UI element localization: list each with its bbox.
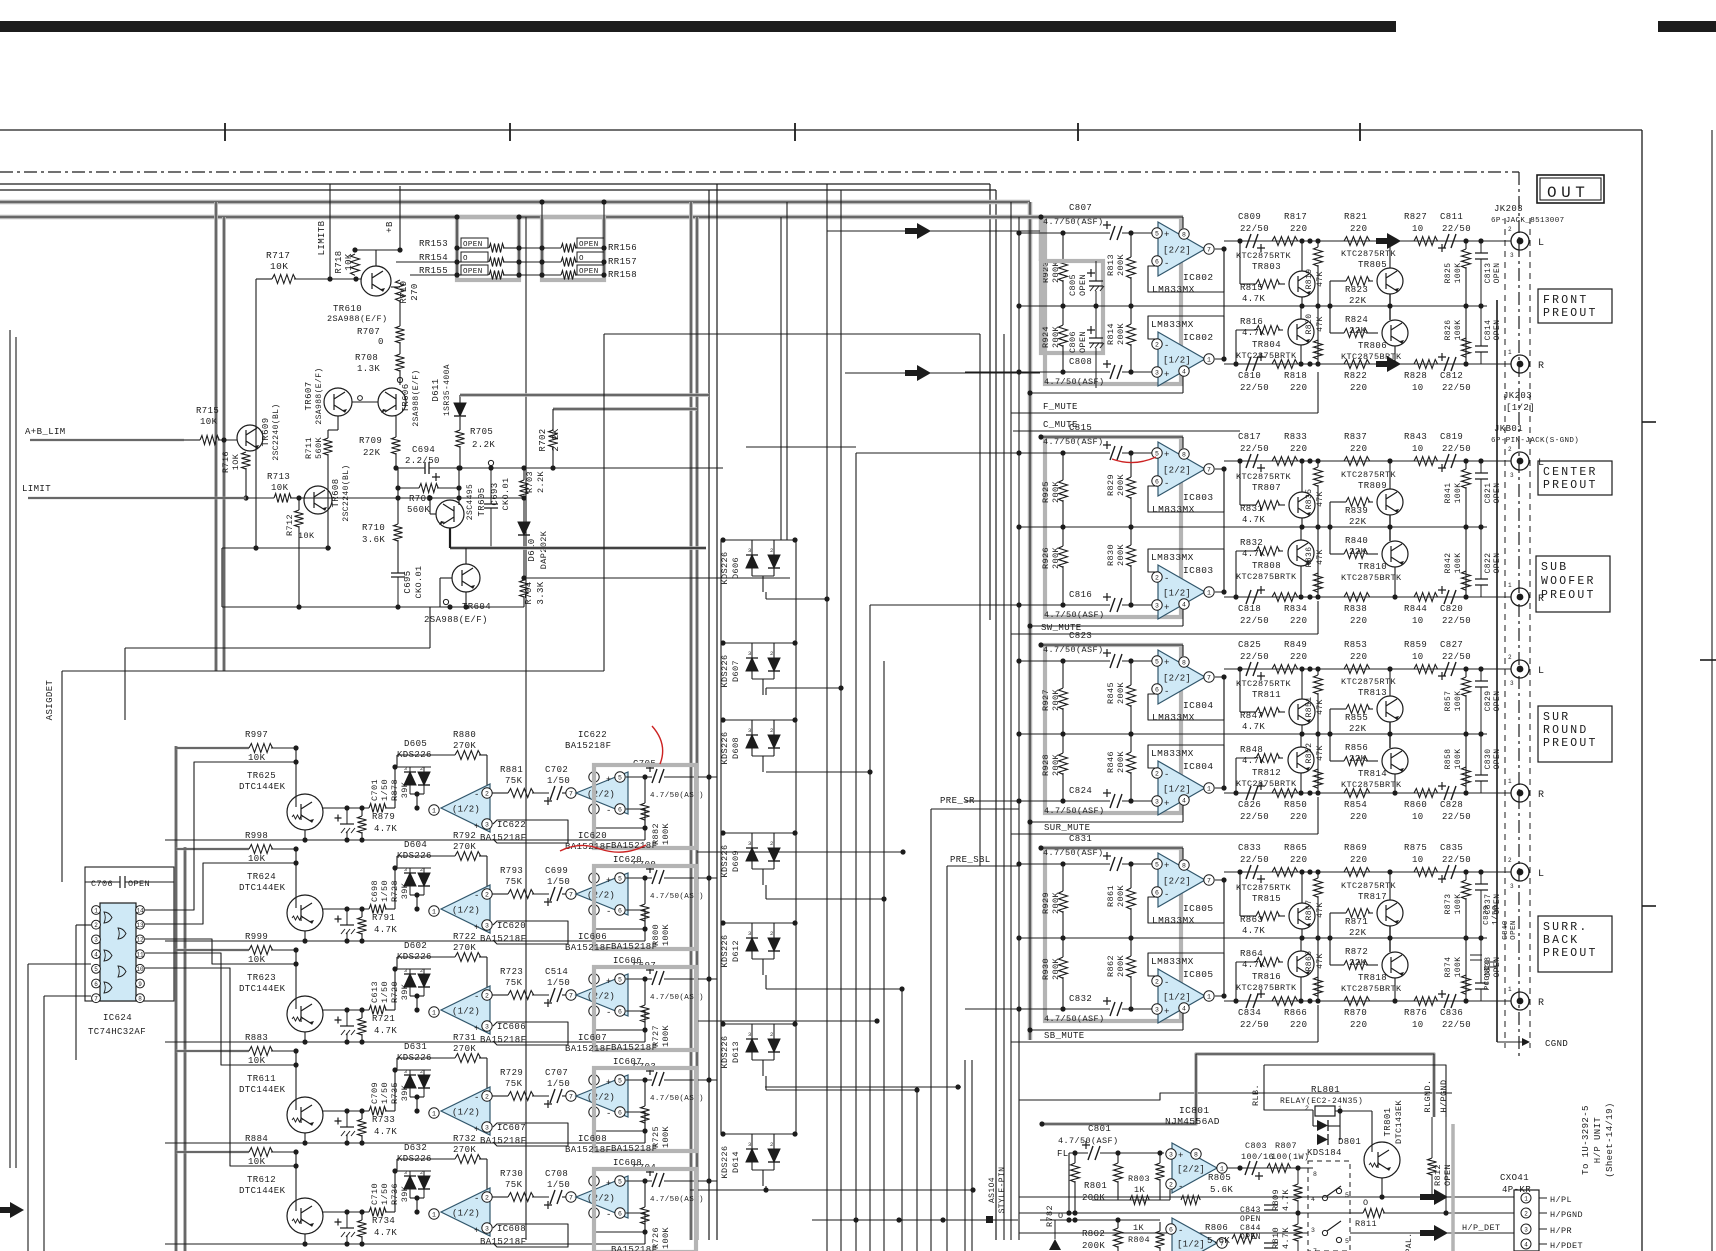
- svg-text:5: 5: [618, 875, 622, 882]
- svg-text:4.7K: 4.7K: [374, 1127, 397, 1137]
- svg-text:220: 220: [1350, 652, 1367, 662]
- gray box IC608: [594, 1169, 696, 1251]
- wire horizontal y1087: [765, 1086, 961, 1088]
- svg-text:7: 7: [1207, 466, 1211, 473]
- svg-text:4: 4: [1182, 797, 1186, 804]
- svg-text:2: 2: [420, 1069, 423, 1075]
- svg-text:220: 220: [1350, 1020, 1367, 1030]
- svg-text:TR611: TR611: [247, 1074, 276, 1084]
- svg-text:BA15218F: BA15218F: [565, 943, 611, 953]
- svg-text:TR605: TR605: [477, 487, 487, 516]
- svg-text:1/50: 1/50: [380, 1082, 390, 1104]
- svg-text:IC802: IC802: [1183, 272, 1214, 283]
- wire 2/2 feedback IC608: [594, 1213, 645, 1232]
- svg-text:10K: 10K: [298, 531, 315, 541]
- wire PCGND vertical: [1496, 300, 1498, 1042]
- svg-text:12: 12: [136, 937, 144, 944]
- svg-text:200K: 200K: [1116, 254, 1126, 277]
- svg-text:R807: R807: [1275, 1141, 1297, 1151]
- svg-text:270K: 270K: [453, 842, 476, 852]
- svg-text:TR810: TR810: [1358, 562, 1387, 572]
- svg-text:O: O: [579, 255, 584, 263]
- svg-text:(2/2): (2/2): [587, 1194, 615, 1204]
- svg-text:BA15218F: BA15218F: [480, 1136, 526, 1146]
- svg-text:270: 270: [410, 283, 420, 300]
- transistor TR624: [287, 895, 323, 931]
- capacitor C830 OPEN vertical: [1475, 775, 1488, 781]
- svg-text:O: O: [1363, 1198, 1369, 1208]
- wire row emitter TR625: [322, 807, 369, 809]
- gray box R923 C805: [1041, 261, 1103, 353]
- svg-text:AS1O4: AS1O4: [988, 1177, 997, 1203]
- svg-text:D607: D607: [731, 660, 741, 682]
- resistor R858 100K vertical: [1462, 767, 1471, 786]
- svg-text:22/50: 22/50: [1240, 616, 1269, 626]
- svg-text:6: 6: [618, 907, 622, 914]
- wire IC607 label box: [493, 1123, 568, 1146]
- label box SUR ROUND PREOUT: [1538, 706, 1612, 762]
- wire vertical gray pair x691: [689, 202, 693, 1240]
- op-amp IC608 (1/2): [429, 1209, 439, 1219]
- svg-text:LM833MX: LM833MX: [1151, 748, 1194, 759]
- svg-text:SUB: SUB: [1541, 561, 1568, 574]
- wire vertical x1019: [1018, 217, 1020, 1240]
- svg-text:R820: R820: [1305, 314, 1314, 335]
- svg-text:2SA988(E/F): 2SA988(E/F): [424, 615, 488, 625]
- wire IC802 chain2: [1224, 363, 1511, 365]
- svg-text:8: 8: [1182, 862, 1186, 869]
- svg-text:3: 3: [748, 547, 752, 554]
- svg-text:C613: C613: [370, 981, 380, 1003]
- svg-text:4.7K: 4.7K: [1281, 1189, 1291, 1212]
- wire IC803 chain2: [1224, 596, 1511, 598]
- svg-text:C834: C834: [1238, 1008, 1261, 1018]
- wire IC804 upper rail: [1041, 644, 1183, 646]
- wire row bottom TR612: [165, 1243, 645, 1245]
- svg-text:TR818: TR818: [1358, 973, 1387, 983]
- svg-text:IC606: IC606: [578, 932, 607, 942]
- svg-text:10K: 10K: [200, 417, 218, 427]
- svg-text:R826: R826: [1444, 320, 1453, 341]
- svg-text:LIMIT: LIMIT: [22, 484, 51, 494]
- svg-text:SUR: SUR: [1543, 711, 1570, 724]
- svg-text:LM833MX: LM833MX: [1152, 712, 1195, 723]
- svg-text:RLB.: RLB.: [1251, 1084, 1261, 1106]
- svg-text:C820: C820: [1440, 604, 1463, 614]
- capacitor C822 OPEN vertical: [1475, 579, 1488, 585]
- svg-text:10K: 10K: [270, 261, 288, 272]
- svg-text:R998: R998: [245, 831, 268, 841]
- svg-text:TR606: TR606: [401, 383, 411, 412]
- svg-text:JKB01: JKB01: [1494, 424, 1523, 434]
- resistor R791: [369, 905, 386, 914]
- jack R IC802: [1511, 355, 1529, 373]
- wire RLB net: [1264, 1065, 1313, 1110]
- svg-text:6: 6: [1155, 258, 1159, 265]
- svg-text:1: 1: [1207, 993, 1211, 1000]
- svg-text:4.7/50(ASF): 4.7/50(ASF): [1043, 437, 1104, 447]
- wires IC624 staircase to rows: [145, 762, 296, 910]
- gray highlight loop IC805: [1045, 848, 1181, 1021]
- svg-text:C694: C694: [412, 445, 435, 455]
- wire TR817 stack: [1389, 872, 1391, 900]
- svg-text:-: -: [1164, 574, 1170, 584]
- svg-text:C836: C836: [1440, 1008, 1463, 1018]
- red annotation marks: [652, 726, 663, 764]
- svg-text:LM833MX: LM833MX: [1152, 504, 1195, 515]
- svg-text:C707: C707: [545, 1068, 568, 1078]
- svg-text:1/50: 1/50: [380, 981, 390, 1003]
- svg-text:4.7K: 4.7K: [374, 1026, 397, 1036]
- svg-text:3.6K: 3.6K: [362, 535, 385, 545]
- svg-text:3: 3: [485, 1124, 489, 1131]
- svg-text:[1/2]: [1/2]: [1163, 993, 1191, 1003]
- svg-text:IC606: IC606: [613, 956, 642, 966]
- svg-text:NJM4556AD: NJM4556AD: [1165, 1116, 1220, 1127]
- capacitor C709: [340, 1126, 354, 1128]
- capacitor C613: [340, 1025, 354, 1027]
- svg-text:OPEN: OPEN: [1493, 263, 1502, 284]
- svg-text:220: 220: [1290, 812, 1307, 822]
- svg-text:2: 2: [1508, 446, 1512, 453]
- svg-text:3: 3: [1524, 1226, 1528, 1233]
- resistor R733: [369, 1107, 386, 1116]
- svg-text:KTC2875RTK: KTC2875RTK: [1236, 251, 1292, 261]
- resistor R878: [358, 816, 367, 833]
- svg-text:1: 1: [1220, 1165, 1224, 1172]
- svg-text:BA15218F: BA15218F: [611, 1245, 657, 1251]
- svg-text:3: 3: [1155, 369, 1159, 376]
- svg-text:IC620: IC620: [613, 855, 642, 865]
- svg-text:2SC2240(BL): 2SC2240(BL): [342, 464, 351, 521]
- IC U624 TC74HC32AF: [100, 903, 136, 1001]
- svg-text:C809: C809: [1238, 212, 1261, 222]
- svg-text:R857: R857: [1444, 691, 1453, 712]
- op-amp IC606 (2/2): [566, 990, 576, 1000]
- svg-text:R823: R823: [1345, 285, 1368, 295]
- wire IC804 mid to 1487: [1434, 733, 1487, 735]
- wire HPGND net: [1264, 1065, 1446, 1117]
- svg-text:R848: R848: [1240, 745, 1263, 755]
- svg-text:KTC2875RTK: KTC2875RTK: [1341, 470, 1397, 480]
- svg-text:10K: 10K: [271, 483, 289, 493]
- wire row emitter TR623: [322, 1009, 369, 1011]
- svg-text:100K: 100K: [1454, 894, 1463, 915]
- svg-text:4.7/50(ASF): 4.7/50(ASF): [1044, 610, 1105, 620]
- dashed switch box: [1308, 1161, 1350, 1251]
- wire KDS output stubs: [765, 592, 767, 599]
- wire IC805 output bus vertical: [1223, 880, 1225, 996]
- svg-text:47K: 47K: [1316, 271, 1325, 287]
- svg-text:R926: R926: [1041, 547, 1051, 569]
- svg-text:D611: D611: [431, 378, 441, 401]
- svg-text:IC608: IC608: [613, 1158, 642, 1168]
- svg-text:IC805: IC805: [1183, 903, 1214, 914]
- wire x398 column: [397, 468, 399, 524]
- svg-text:(1/2): (1/2): [452, 906, 480, 916]
- wire IC803 amp1 feedback box: [1148, 469, 1224, 512]
- svg-text:R782: R782: [1045, 1205, 1055, 1227]
- svg-text:[1/2]: [1/2]: [1163, 356, 1191, 366]
- svg-text:6: 6: [1155, 889, 1159, 896]
- svg-text:C701: C701: [370, 779, 380, 801]
- svg-text:D631: D631: [404, 1042, 427, 1052]
- svg-text:IC624: IC624: [103, 1013, 132, 1023]
- svg-text:C812: C812: [1440, 371, 1463, 381]
- svg-text:C695: C695: [403, 570, 413, 593]
- svg-text:R791: R791: [372, 913, 395, 923]
- svg-text:OPEN: OPEN: [1240, 1233, 1261, 1242]
- svg-text:PCGND: PCGND: [1484, 966, 1492, 991]
- svg-text:4: 4: [94, 951, 98, 958]
- svg-text:1: 1: [432, 908, 436, 915]
- svg-text:IC608: IC608: [578, 1134, 607, 1144]
- svg-text:4: 4: [1524, 1241, 1528, 1248]
- svg-text:3.3K: 3.3K: [536, 581, 546, 604]
- svg-text:R: R: [1538, 790, 1544, 801]
- svg-text:2: 2: [1155, 978, 1159, 985]
- svg-text:+: +: [474, 1226, 480, 1236]
- svg-text:IC803: IC803: [1183, 565, 1214, 576]
- svg-text:R818: R818: [1284, 371, 1307, 381]
- svg-text:R813: R813: [1106, 254, 1116, 276]
- svg-text:IC803: IC803: [1183, 492, 1214, 503]
- wire rail y607: [222, 606, 524, 608]
- svg-text:6: 6: [94, 981, 98, 988]
- svg-text:R867: R867: [1305, 900, 1314, 921]
- svg-text:C698: C698: [370, 880, 380, 902]
- svg-text:IC607: IC607: [613, 1057, 642, 1067]
- svg-text:1: 1: [1508, 582, 1512, 589]
- svg-text:4.7/50(ASF): 4.7/50(ASF): [1043, 848, 1104, 858]
- gray highlight loop IC803: [1045, 437, 1181, 617]
- svg-text:KDS226: KDS226: [720, 731, 730, 764]
- svg-text:D614: D614: [731, 1151, 741, 1173]
- svg-text:KTC2875BRTK: KTC2875BRTK: [1341, 984, 1402, 994]
- svg-text:R854: R854: [1344, 800, 1367, 810]
- svg-text:75K: 75K: [505, 978, 523, 988]
- svg-text:R839: R839: [1345, 506, 1368, 516]
- wire comb bottom middle: [826, 184, 828, 1251]
- svg-text:LM833MX: LM833MX: [1152, 915, 1195, 926]
- svg-text:-: -: [474, 992, 480, 1002]
- svg-text:R927: R927: [1041, 689, 1051, 711]
- wire top bus A: [0, 183, 990, 185]
- svg-text:KTC2875RTK: KTC2875RTK: [1341, 249, 1397, 259]
- svg-text:FRONT: FRONT: [1543, 294, 1589, 307]
- svg-text:560K: 560K: [407, 505, 430, 515]
- svg-text:R869: R869: [1344, 843, 1367, 853]
- svg-text:3: 3: [1510, 472, 1514, 479]
- svg-text:R817: R817: [1284, 212, 1307, 222]
- svg-text:(Sheet-14/19): (Sheet-14/19): [1605, 1102, 1615, 1177]
- svg-text:7: 7: [569, 891, 573, 898]
- resistor R873 100K vertical: [1462, 880, 1471, 899]
- svg-text:3: 3: [1155, 798, 1159, 805]
- transistor TR610: [361, 266, 391, 296]
- op-amp IC805 [2/2]: [1158, 853, 1205, 907]
- op-amp IC606 (1/2): [429, 1007, 439, 1017]
- label box SUB WOOFER PREOUT: [1536, 556, 1610, 612]
- svg-text:1SR35-400A: 1SR35-400A: [443, 364, 452, 416]
- svg-text:+: +: [1164, 799, 1170, 809]
- svg-text:1/50: 1/50: [547, 776, 570, 786]
- svg-text:5: 5: [1155, 658, 1159, 665]
- arrow front R: [905, 365, 931, 381]
- svg-text:+: +: [606, 977, 612, 987]
- svg-text:DTC144EK: DTC144EK: [239, 1085, 286, 1095]
- svg-text:1: 1: [432, 1211, 436, 1218]
- svg-text:JK203: JK203: [1494, 204, 1523, 214]
- svg-text:2SA988(E/F): 2SA988(E/F): [327, 314, 388, 324]
- resistor R879: [369, 804, 386, 813]
- wire IC805 amp2 lower rail: [1030, 1029, 1183, 1031]
- svg-text:R814: R814: [1106, 323, 1116, 345]
- gray vertical right of switch: [1451, 1124, 1455, 1251]
- svg-text:SW_MUTE: SW_MUTE: [1041, 623, 1082, 633]
- svg-text:100K: 100K: [661, 924, 671, 947]
- svg-text:(1/2): (1/2): [452, 1007, 480, 1017]
- svg-text:+: +: [1164, 603, 1170, 613]
- op-amp IC804 [1/2]: [1158, 761, 1205, 815]
- svg-text:22/50: 22/50: [1442, 812, 1471, 822]
- resistor R882: [641, 803, 650, 820]
- svg-text:1: 1: [1508, 778, 1512, 785]
- svg-text:R929: R929: [1041, 892, 1051, 914]
- resistor R735: [358, 1119, 367, 1136]
- svg-text:-: -: [1164, 978, 1170, 988]
- svg-text:5.6K: 5.6K: [1210, 1185, 1233, 1195]
- op-amp IC607 (1/2): [429, 1108, 439, 1118]
- svg-text:14: 14: [136, 907, 144, 914]
- svg-text:100K: 100K: [661, 823, 671, 846]
- svg-text:C_MUTE: C_MUTE: [1043, 420, 1078, 430]
- svg-text:R883: R883: [245, 1033, 268, 1043]
- svg-text:OPEN: OPEN: [1240, 1215, 1261, 1224]
- wire horizontal y334: [604, 333, 980, 335]
- wire RR row feeds left: [396, 261, 457, 263]
- svg-text:TR811: TR811: [1252, 690, 1281, 700]
- svg-text:3: 3: [748, 1031, 752, 1038]
- svg-text:-: -: [474, 790, 480, 800]
- svg-text:2SA988(E/F): 2SA988(E/F): [315, 367, 324, 424]
- op-amp IC805 [1/2]: [1158, 969, 1205, 1023]
- capacitor C701: [340, 823, 354, 825]
- op-amp IC607 (2/2): [566, 1091, 576, 1101]
- resistor R800: [641, 904, 650, 921]
- svg-text:D801: D801: [1338, 1137, 1361, 1147]
- svg-text:D604: D604: [404, 840, 427, 850]
- svg-text:6P-JACK_8513007: 6P-JACK_8513007: [1491, 217, 1565, 225]
- capacitor C821 OPEN vertical: [1475, 473, 1488, 479]
- svg-text:5: 5: [618, 1178, 622, 1185]
- svg-text:2: 2: [420, 1170, 423, 1176]
- svg-text:22/50: 22/50: [1240, 812, 1269, 822]
- svg-text:2: 2: [1155, 341, 1159, 348]
- svg-text:220: 220: [1290, 855, 1307, 865]
- svg-text:2: 2: [1508, 226, 1512, 233]
- svg-text:220: 220: [1350, 383, 1367, 393]
- svg-text:1: 1: [1207, 589, 1211, 596]
- wire IC802 output bus vertical: [1223, 249, 1225, 359]
- svg-text:2.2/50: 2.2/50: [405, 456, 440, 466]
- svg-text:2: 2: [94, 922, 98, 929]
- wire RR cross links: [519, 247, 542, 249]
- svg-text:TR804: TR804: [1252, 340, 1281, 350]
- svg-text:6: 6: [1169, 1226, 1173, 1233]
- svg-text:C819: C819: [1440, 432, 1463, 442]
- svg-text:SB_MUTE: SB_MUTE: [1044, 1031, 1085, 1041]
- svg-text:SURR.: SURR.: [1543, 921, 1589, 934]
- svg-text:-: -: [606, 907, 612, 917]
- svg-text:3: 3: [1155, 1006, 1159, 1013]
- svg-text:R849: R849: [1284, 640, 1307, 650]
- svg-text:2: 2: [770, 1031, 774, 1038]
- svg-text:22K: 22K: [1349, 928, 1367, 938]
- svg-text:D602: D602: [404, 941, 427, 951]
- wires IC624 left pins: [28, 963, 91, 965]
- svg-text:5: 5: [618, 976, 622, 983]
- wire IC624 outer box: [85, 867, 174, 1001]
- svg-text:C699: C699: [545, 866, 568, 876]
- svg-text:+: +: [606, 1078, 612, 1088]
- svg-text:7: 7: [1207, 877, 1211, 884]
- svg-text:1/50: 1/50: [547, 1180, 570, 1190]
- svg-text:47K: 47K: [1316, 902, 1325, 918]
- wire IC803 amp2 lower rail: [1030, 625, 1183, 627]
- svg-text:-: -: [606, 1008, 612, 1018]
- arrow bottom-left: [0, 1202, 24, 1218]
- resistor R857 100K vertical: [1462, 677, 1471, 696]
- svg-text:3: 3: [404, 766, 407, 772]
- transistor TR606: [378, 388, 406, 416]
- svg-text:R874: R874: [1444, 957, 1453, 978]
- arrow HP L: [1420, 1189, 1448, 1205]
- svg-text:6P-PIN-JACK(S-GND): 6P-PIN-JACK(S-GND): [1491, 437, 1579, 445]
- svg-text:22/50: 22/50: [1442, 224, 1471, 234]
- svg-text:R717: R717: [266, 250, 290, 261]
- svg-text:R833: R833: [1284, 432, 1307, 442]
- svg-text:+: +: [1164, 861, 1170, 871]
- svg-text:(1/2): (1/2): [452, 1209, 480, 1219]
- svg-text:+: +: [1164, 230, 1170, 240]
- svg-text:-: -: [1178, 1182, 1184, 1192]
- resistor R852 47K vertical: [1314, 769, 1323, 788]
- svg-text:-: -: [606, 1210, 612, 1220]
- svg-text:BACK: BACK: [1543, 934, 1579, 947]
- svg-text:RELAY(EC2-24N35): RELAY(EC2-24N35): [1280, 1097, 1363, 1106]
- wire IC805 upper rail: [1041, 847, 1183, 849]
- resistor R826 100K vertical: [1462, 338, 1471, 357]
- svg-text:(1/2): (1/2): [452, 805, 480, 815]
- svg-text:PRE_SR: PRE_SR: [940, 796, 975, 806]
- svg-text:TR609: TR609: [261, 417, 271, 446]
- transistor TR612: [287, 1198, 323, 1234]
- svg-text:47K: 47K: [1316, 491, 1325, 507]
- svg-text:8: 8: [1182, 231, 1186, 238]
- ruler line: [0, 129, 1642, 131]
- svg-text:R712: R712: [285, 514, 295, 536]
- wire KDS left rail: [720, 540, 722, 1134]
- svg-text:R805: R805: [1208, 1173, 1231, 1183]
- svg-text:C706: C706: [91, 879, 113, 889]
- svg-text:100K: 100K: [1454, 320, 1463, 341]
- svg-text:1/50: 1/50: [547, 877, 570, 887]
- svg-text:22/50: 22/50: [1442, 616, 1471, 626]
- svg-text:BA15218F: BA15218F: [480, 934, 526, 944]
- wire TR805 stack: [1389, 241, 1391, 268]
- svg-text:TR607: TR607: [304, 381, 314, 410]
